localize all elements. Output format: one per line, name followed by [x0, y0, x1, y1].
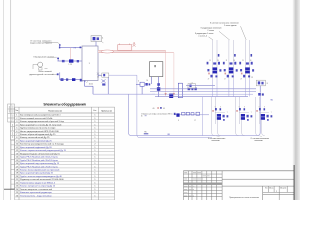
svg-text:16: 16	[141, 116, 143, 118]
riser pair 1	[212, 40, 214, 80]
svg-text:К радиаторам 1 этажа: К радиаторам 1 этажа	[195, 33, 213, 35]
bottom note leaders	[216, 135, 219, 138]
return drop at x128.5	[129, 94, 258, 135]
title block left grid	[183, 171, 222, 200]
svg-text:27: 27	[208, 78, 210, 80]
margin box rotated text marks	[8, 106, 11, 113]
red arrows at bottom	[165, 93, 167, 96]
riser pair 2	[228, 40, 230, 80]
red riser down 1	[165, 50, 167, 94]
svg-text:Объем системы отопления 98 л: Объем системы отопления 98 л	[141, 113, 172, 115]
manifold line 4	[152, 93, 253, 95]
svg-text:Труба PE-X Rautitan pink 20х2,: Труба PE-X Rautitan pink 20х2,8 бухта	[20, 159, 59, 162]
svg-text:12: 12	[251, 77, 253, 79]
wire: inlet to tank top	[60, 47, 82, 49]
wire tank bottom drop	[84, 81, 86, 87]
riser 2 leader	[219, 31, 230, 40]
svg-text:Кран шаровый фланцевый Ду 32: Кран шаровый фланцевый Ду 32	[20, 172, 54, 175]
red boiler box	[118, 45, 132, 51]
svg-text:в осях 1-4: в осях 1-4	[199, 35, 207, 37]
manifold line 2	[150, 88, 256, 90]
svg-text:Элементы оборудования: Элементы оборудования	[43, 103, 86, 107]
svg-text:Примечание: Примечание	[101, 110, 112, 112]
red valve symbol	[133, 44, 136, 47]
svg-text:Масштаб: Масштаб	[280, 187, 286, 189]
right end riser of loop	[257, 92, 260, 136]
wire tank right outlet	[98, 74, 109, 76]
lower branch 1 wires	[211, 97, 213, 124]
red connector tank inlet	[70, 48, 72, 61]
lower branch 1 drop	[218, 120, 221, 136]
valve on inlet A	[59, 44, 61, 45]
riser 3 valves	[251, 54, 253, 57]
expansion unit above tank	[91, 36, 101, 42]
title block signature labels	[184, 186, 187, 187]
svg-text:Т95: Т95	[144, 131, 147, 133]
red supply pipe (top)	[98, 49, 166, 51]
lower branch 2 wires	[235, 97, 237, 124]
page edge shadow	[292, 0, 300, 200]
red return pipe	[98, 52, 174, 54]
svg-text:Принципиальная схема отопления: Принципиальная схема отопления	[229, 197, 259, 199]
svg-text:Кран шаровый со сгоном Ду 15 л: Кран шаровый со сгоном Ду 15 латунный	[20, 123, 61, 126]
tank T1	[82, 46, 98, 81]
frame right border	[293, 165, 295, 200]
svg-text:Кран шаровый под термоголовку: Кран шаровый под термоголовку Ду 15	[20, 162, 60, 165]
valve below outlet	[107, 77, 109, 94]
title block right section	[183, 171, 294, 200]
small mark on inlet wire	[80, 47, 82, 49]
riser pair 3	[244, 40, 246, 80]
tick label on bottom run	[144, 133, 149, 134]
svg-text:Поз.: Поз.	[15, 110, 19, 112]
svg-text:Клапан обратный пружинный Ду 2: Клапан обратный пружинный Ду 25	[20, 133, 56, 136]
svg-text:Клапан запорный на обратку Ду: Клапан запорный на обратку Ду 15	[20, 185, 56, 188]
svg-text:Бак мембранный расширительный: Бак мембранный расширительный 100 л	[20, 114, 61, 117]
svg-text:7,5: 7,5	[74, 47, 76, 49]
left margin stamp boxes	[8, 104, 15, 189]
svg-text:Радиатор стальной панельный 22: Радиатор стальной панельный 22-500-1000	[20, 178, 64, 181]
title block scribbles	[184, 172, 187, 173]
inner loop vertical	[137, 75, 212, 138]
svg-text:Теплоноситель - вода питьевая: Теплоноситель - вода питьевая	[20, 195, 51, 197]
filter column (tall rect)	[178, 83, 182, 98]
svg-text:17: 17	[194, 120, 196, 122]
riser stub joins	[244, 80, 246, 97]
svg-text:4: 4	[102, 38, 103, 40]
svg-text:отопления: отопления	[255, 140, 263, 142]
leader wire A	[45, 42, 59, 44]
manifold line 1	[186, 85, 215, 87]
svg-text:Труба PE-X Rautitan pink 25х3,: Труба PE-X Rautitan pink 25х3,5 бухта	[20, 165, 59, 168]
left pump unit of manifold	[188, 84, 196, 88]
wire from left cluster down	[141, 86, 143, 94]
cluster left of box	[140, 82, 144, 86]
svg-text:К радиаторам отопления: К радиаторам отопления	[201, 27, 222, 29]
title block header dark row	[183, 183, 222, 185]
lower feed wire	[60, 79, 83, 81]
red pump oval	[101, 50, 114, 53]
svg-text:12: 12	[97, 77, 99, 79]
middle feed wire	[58, 60, 83, 62]
manifold line 3	[150, 91, 256, 93]
svg-text:1 2 3: 1 2 3	[69, 64, 73, 66]
valves on that wire	[157, 83, 160, 86]
svg-text:Кран шаровый муфтовый Ду 20: Кран шаровый муфтовый Ду 20	[20, 146, 52, 149]
svg-text:Котел газовый настенный 24 кВт: Котел газовый настенный 24 кВт	[20, 117, 52, 120]
stub unit to tank	[95, 42, 97, 47]
svg-text:Группа безопасности котла в сб: Группа безопасности котла в сборе	[20, 128, 56, 130]
pump P1	[38, 62, 43, 67]
svg-text:2 этажа: 2 этажа	[208, 30, 214, 32]
svg-text:Кран шаровый муфтовый Ду 25: Кран шаровый муфтовый Ду 25	[20, 139, 52, 142]
leader wire B	[48, 56, 57, 58]
branch line with metering units	[174, 114, 209, 116]
svg-text:Термоголовка жидкостная М30х1,: Термоголовка жидкостная М30х1,5	[20, 182, 56, 184]
svg-text:Клапан предохранительный сброс: Клапан предохранительный сбросной 3 бар	[20, 120, 65, 123]
vertical from note C to lower feed	[59, 72, 61, 79]
valves on lower feed	[61, 78, 64, 81]
riser stub joins	[228, 80, 230, 97]
svg-text:Воздухоотводчик автоматический: Воздухоотводчик автоматический Ду 15	[20, 152, 60, 155]
svg-text:Кол.: Кол.	[93, 110, 97, 112]
lower branch 3 drop	[262, 120, 265, 136]
riser stub joins	[212, 80, 214, 97]
equipment table frame	[15, 107, 115, 200]
svg-text:Фильтр сетчатый косой Ду 25: Фильтр сетчатый косой Ду 25	[20, 136, 50, 139]
svg-text:Клапан термостатический радиат: Клапан термостатический радиаторный Ду 1…	[20, 149, 67, 152]
valve B	[57, 58, 59, 60]
svg-text:Коллектор распределительный на: Коллектор распределительный на 3 выхода	[20, 143, 65, 146]
svg-text:Насос циркуляционный UPS 25-40: Насос циркуляционный UPS 25-40 180	[20, 130, 59, 133]
main return run	[93, 93, 155, 95]
heat exchanger box U2	[150, 62, 163, 77]
manifold line 5	[155, 96, 248, 98]
svg-text:К системе напольного отопления: К системе напольного отопления	[210, 22, 239, 24]
paper left edge	[3, 0, 5, 200]
svg-text:двухконтурный настенный: двухконтурный настенный	[29, 73, 53, 76]
small unit on outlet	[102, 73, 109, 77]
tick on inlet wire	[59, 47, 60, 49]
svg-text:Гильза защитная с теплопастой: Гильза защитная с теплопастой	[20, 188, 52, 191]
svg-text:Труба стальная водогазопроводн: Труба стальная водогазопроводная Ду 40	[20, 176, 62, 178]
svg-text:10 11: 10 11	[89, 84, 93, 86]
red pipe band fill	[98, 51, 166, 53]
right unit box	[256, 80, 265, 86]
svg-text:8: 8	[267, 83, 268, 85]
svg-text:Наименование: Наименование	[48, 110, 63, 112]
svg-text:Масса: Масса	[269, 187, 273, 189]
red riser down 2	[173, 53, 175, 95]
svg-text:От системы напольного: От системы напольного	[251, 138, 270, 140]
svg-text:Котел газовый: Котел газовый	[39, 70, 52, 73]
lower branch 3 wires	[255, 97, 257, 124]
valve cluster on middle feed	[62, 60, 65, 62]
svg-text:Клапан балансировочный настрое: Клапан балансировочный настроечный	[20, 169, 59, 172]
margin dark tick	[4, 188, 15, 190]
sheet frame left border	[10, 0, 12, 200]
riser 1 valves	[218, 54, 220, 57]
lower branch 2 drop	[242, 120, 245, 136]
svg-text:Комплект креплений радиатора: Комплект креплений радиатора	[20, 191, 52, 194]
marks below right unit	[259, 86, 261, 92]
svg-text:отопления: отопления	[212, 140, 220, 142]
riser 2 valves	[234, 54, 236, 57]
svg-text:Труба PE-X Rautitan pink 16х2,: Труба PE-X Rautitan pink 16х2,2 бухта	[20, 156, 59, 159]
svg-text:14: 14	[147, 80, 149, 82]
riser 3 leader	[209, 37, 214, 40]
wire below box right	[158, 77, 160, 97]
wire below box left	[151, 77, 153, 84]
dark valve blob right	[169, 94, 173, 98]
table rows text	[16, 114, 97, 198]
wire outlet to inner loop	[109, 74, 137, 76]
svg-text:водоснабжения здания: водоснабжения здания	[30, 43, 52, 45]
svg-text:К системе напольного: К системе напольного	[208, 138, 225, 140]
leader wire C	[52, 73, 57, 75]
svg-text:2 этажа здания: 2 этажа здания	[224, 25, 237, 27]
riser 1 leader	[241, 26, 247, 40]
